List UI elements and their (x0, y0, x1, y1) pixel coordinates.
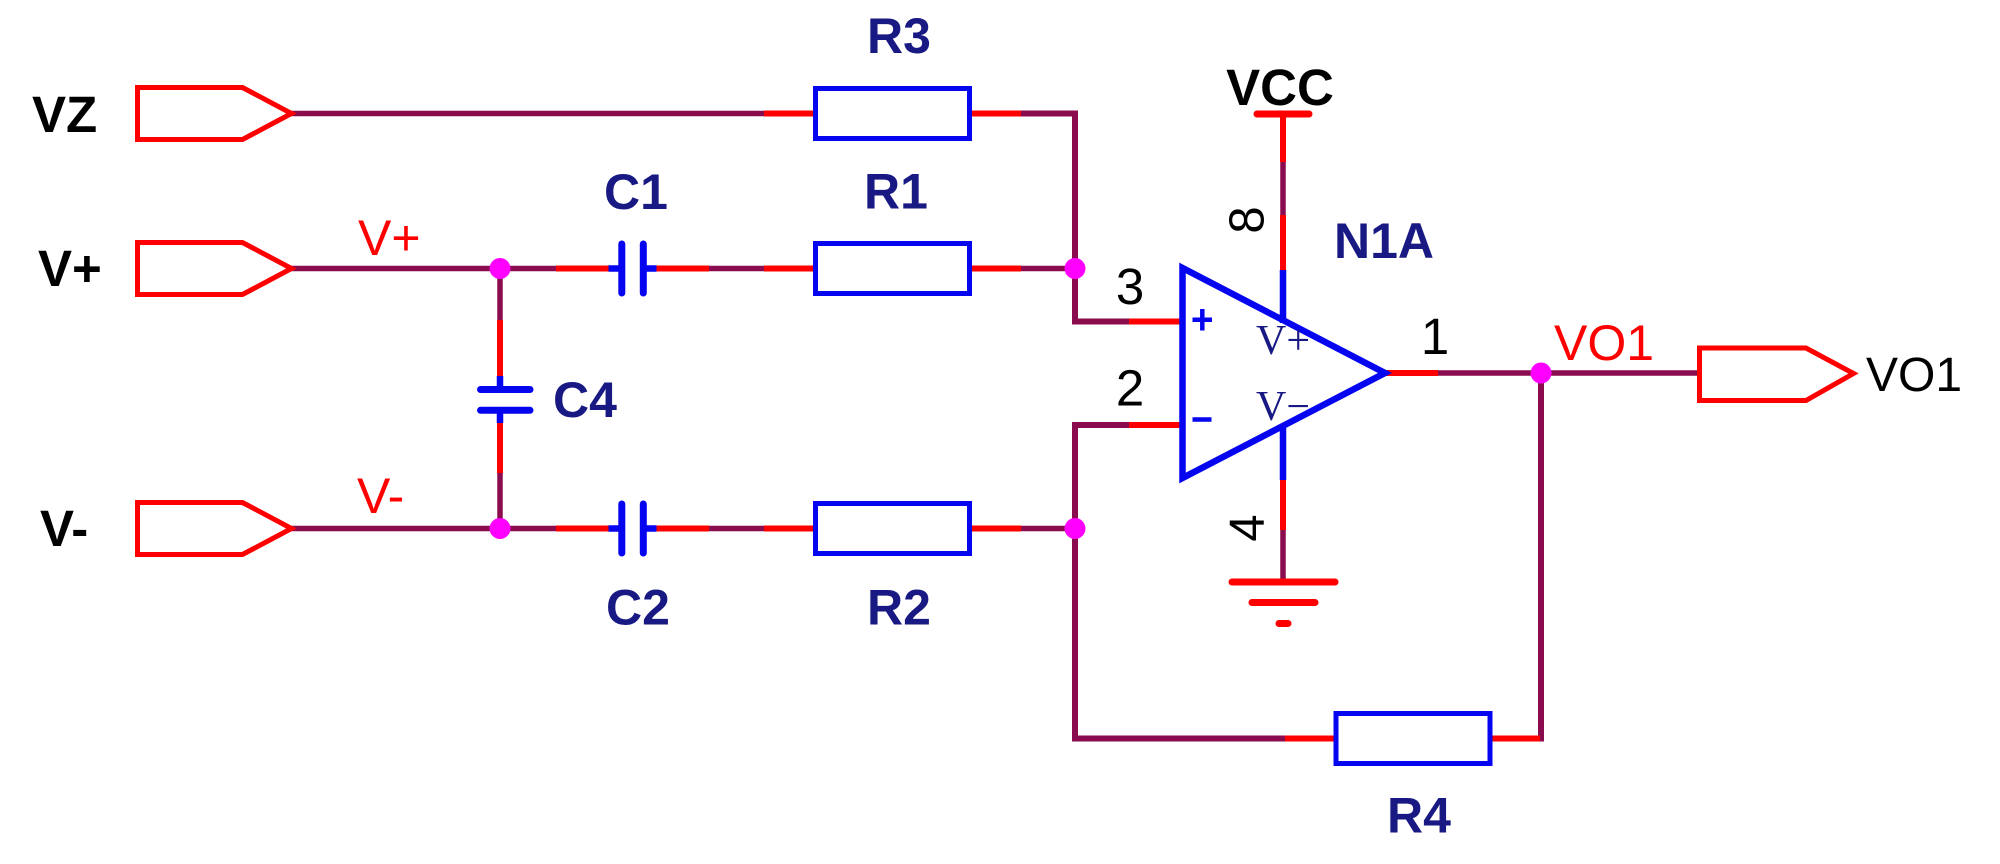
resistor R2 (764, 504, 1021, 554)
port V+ (138, 243, 292, 295)
wire op-amp pin 4 to ground (1280, 528, 1286, 580)
wire R3 output to node A (corner) (1019, 114, 1075, 269)
wire node A to op-amp pin 3 (1075, 269, 1131, 322)
svg-text:4: 4 (1221, 514, 1275, 541)
svg-text:V+: V+ (38, 240, 102, 297)
svg-text:V+: V+ (1256, 318, 1310, 364)
junction node V- (490, 518, 511, 539)
wire C2 to R2 (706, 526, 766, 532)
svg-text:VZ: VZ (32, 86, 97, 143)
junction node V+ (490, 258, 511, 279)
resistor R3 (764, 89, 1021, 139)
svg-text:C4: C4 (553, 372, 617, 428)
junction node VO1 (1531, 363, 1552, 384)
resistor R1 (764, 244, 1021, 294)
power VCC symbol (1257, 114, 1309, 162)
op-amp N1A pin 4 stub (1280, 478, 1286, 530)
capacitor C2 (556, 504, 709, 553)
svg-text:2: 2 (1116, 360, 1144, 417)
wire VO1 node to output port (1541, 370, 1700, 376)
op-amp N1A pin 2 stub (1129, 422, 1184, 428)
wire C4 lower vertical (C4 to V- node) (497, 471, 503, 529)
svg-text:1: 1 (1421, 308, 1449, 365)
port V- (138, 503, 292, 555)
svg-text:V-: V- (357, 468, 404, 524)
wire R2 output to node B (1019, 526, 1075, 532)
junction node A (R1/R3) (1065, 258, 1086, 279)
svg-text:8: 8 (1221, 206, 1275, 233)
wire R1 output to node A (1019, 266, 1075, 272)
op-amp N1A pin 3 stub (1129, 319, 1184, 325)
wire V+ net from port through node to C1 (291, 266, 558, 272)
svg-text:V+: V+ (358, 210, 421, 266)
port VZ (138, 88, 292, 140)
svg-text:V-: V- (40, 500, 88, 557)
svg-text:C2: C2 (606, 580, 670, 636)
svg-text:VCC: VCC (1226, 59, 1334, 116)
wire R4 output up to VO1 node (1538, 373, 1541, 739)
wire node B up to op-amp pin 2 (1075, 425, 1131, 529)
svg-text:R4: R4 (1387, 788, 1451, 844)
wire op-amp output to VO1 node (1437, 370, 1541, 376)
port VO1 (1700, 348, 1854, 401)
svg-text:C1: C1 (604, 164, 668, 220)
wire C1 to R1 (706, 266, 766, 272)
svg-text:R2: R2 (867, 580, 931, 636)
ground symbol (1232, 582, 1335, 624)
capacitor C4 (481, 320, 531, 473)
svg-text:N1A: N1A (1334, 213, 1434, 269)
svg-text:R3: R3 (867, 8, 931, 64)
junction node B (R2) (1065, 518, 1086, 539)
wire VCC to op-amp pin 8 (1280, 160, 1286, 217)
wire node B down to R4 (feedback) (1075, 529, 1287, 739)
svg-text:V−: V− (1256, 384, 1310, 430)
svg-text:R1: R1 (864, 164, 928, 220)
op-amp N1A pin 1 stub (1385, 370, 1438, 376)
op-amp N1A pin 8 stub (1280, 215, 1286, 272)
wire C4 upper vertical (node to C4) (497, 269, 503, 323)
wire V- net from port through node to C2 (291, 526, 558, 532)
svg-text:VO1: VO1 (1554, 315, 1654, 371)
capacitor C1 (556, 244, 709, 293)
svg-text:VO1: VO1 (1866, 349, 1962, 402)
svg-text:3: 3 (1116, 258, 1144, 315)
op-amp N1A body (1183, 268, 1386, 480)
resistor R4 (1285, 714, 1540, 764)
wire VZ net from port to R3 (291, 111, 766, 117)
